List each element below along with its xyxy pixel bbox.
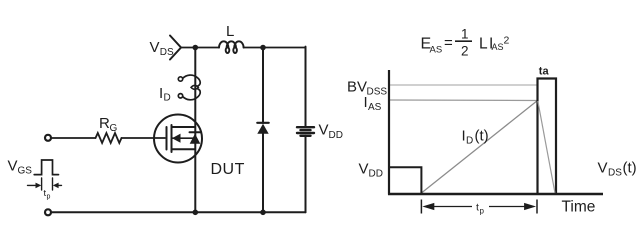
node: drain junction	[193, 45, 199, 51]
diode D1	[257, 123, 268, 134]
svg-text:Time: Time	[562, 199, 596, 216]
node: diode-branch bottom junction	[260, 210, 266, 216]
svg-text:V: V	[150, 39, 160, 56]
current probe I_D	[178, 75, 200, 100]
wire battery branch upper	[305, 47, 307, 127]
svg-text:AS: AS	[430, 45, 443, 56]
inductor L	[219, 41, 244, 53]
svg-text:DUT: DUT	[211, 161, 245, 178]
label t_p (V_GS)	[44, 188, 51, 201]
svg-text:V: V	[359, 161, 369, 178]
svg-text:=: =	[444, 35, 453, 52]
svg-text:V: V	[319, 122, 329, 139]
svg-text:G: G	[110, 123, 118, 134]
terminal: source input	[45, 209, 51, 215]
svg-text:L: L	[479, 35, 488, 52]
label Time	[562, 199, 596, 216]
transistor DUT (MOSFET with body diode)	[154, 115, 202, 163]
svg-text:DS: DS	[608, 168, 622, 179]
svg-text:(t): (t)	[623, 160, 637, 177]
t_p width arrows (V_GS)	[28, 178, 62, 190]
svg-text:DS: DS	[160, 47, 174, 58]
svg-text:(t): (t)	[475, 128, 489, 145]
label V_DS	[150, 39, 175, 58]
svg-text:V: V	[8, 158, 18, 175]
label V_DS (t)	[598, 160, 637, 179]
probe V_DS (chevron)	[170, 36, 195, 60]
decay diagonal inside pulse	[538, 101, 555, 193]
svg-text:GS: GS	[18, 166, 33, 177]
svg-text:DD: DD	[369, 169, 383, 180]
wire to inductor	[195, 47, 219, 49]
label DUT	[211, 161, 245, 178]
wire top rail right	[244, 47, 306, 49]
V_GS pulse symbol	[34, 160, 58, 175]
ramp I_D(t)	[421, 101, 537, 194]
label RG	[99, 115, 118, 134]
fraction bar	[455, 40, 472, 42]
gray level line I_AS	[390, 99, 538, 102]
wire gate-left	[51, 137, 95, 139]
wire drain vertical	[194, 48, 196, 213]
wire gate-right	[122, 137, 166, 139]
label V_DD (battery)	[319, 122, 343, 142]
node: diode-branch top junction	[260, 45, 266, 51]
svg-text:p: p	[480, 207, 485, 216]
y-axis	[388, 70, 390, 195]
svg-text:R: R	[99, 115, 110, 132]
label L	[226, 23, 234, 40]
wire battery branch lower	[305, 136, 307, 213]
battery V_DD	[297, 127, 314, 136]
terminal: gate input	[45, 135, 51, 141]
svg-text:V: V	[598, 160, 608, 177]
equation E_AS = 1/2 L I_AS^2	[421, 26, 510, 58]
svg-text:D: D	[164, 93, 171, 104]
label ta	[539, 66, 550, 78]
label V_DD (graph)	[359, 161, 383, 180]
svg-text:AS: AS	[368, 102, 382, 113]
resistor RG	[96, 133, 122, 143]
wire bottom rail	[51, 211, 305, 213]
label I_D	[159, 85, 171, 104]
svg-text:AS: AS	[492, 42, 504, 52]
wire diode branch upper	[262, 48, 264, 124]
svg-text:DSS: DSS	[367, 87, 388, 98]
label I_D (t)	[462, 128, 489, 147]
svg-text:D: D	[466, 136, 473, 147]
V_DD step waveform	[390, 167, 421, 193]
label V_GS	[8, 158, 33, 177]
svg-text:p: p	[47, 194, 51, 201]
svg-text:BV: BV	[347, 79, 367, 96]
t_p dimension (graph)	[421, 200, 537, 214]
svg-text:2: 2	[461, 44, 469, 59]
label BV_DSS	[347, 79, 387, 98]
svg-text:DD: DD	[329, 130, 343, 141]
svg-text:L: L	[226, 23, 234, 40]
gray level line BV_DSS	[390, 84, 538, 86]
wire diode branch lower	[262, 134, 264, 213]
x-axis	[388, 193, 603, 196]
label t_p (graph)	[476, 202, 485, 216]
svg-text:ta: ta	[539, 66, 550, 78]
label I_AS	[364, 94, 382, 113]
avalanche pulse ta	[538, 79, 557, 194]
svg-text:1: 1	[461, 26, 469, 41]
node: source junction	[193, 210, 199, 216]
svg-text:2: 2	[504, 35, 510, 47]
